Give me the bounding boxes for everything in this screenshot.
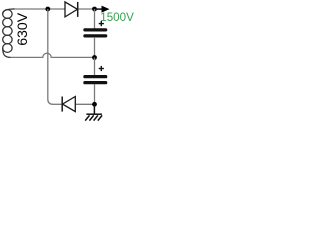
wire C2 top lead [94,58,96,76]
capacitor C2 plus sign [99,66,104,71]
node junction J1 [45,7,50,12]
wire bottom left segment [53,103,62,105]
wire C1 top lead [94,9,96,29]
arrow output terminal [95,6,110,13]
wire bottom right segment [75,103,94,105]
wire C1 bottom lead [94,37,96,58]
diode D1 top [65,2,78,17]
wire vertical from J1 down with corner [48,9,53,104]
node junction J2 [92,7,97,12]
wire middle with hop over vertical wire [11,53,95,57]
transformer winding T1 (630V) [3,9,15,57]
wire C2 bottom lead [94,84,96,104]
node junction J3 [92,55,97,60]
capacitor C1 [83,28,107,37]
ground symbol [85,104,102,120]
wire top rail right segment [78,8,95,10]
diode D2 bottom [62,97,75,112]
capacitor C1 plus sign [99,21,104,26]
svg-text:630V: 630V [14,12,30,46]
capacitor C2 [83,75,107,84]
wire top rail left segment [14,8,66,10]
node junction J4 [92,102,97,107]
svg-text:1500V: 1500V [100,10,134,24]
